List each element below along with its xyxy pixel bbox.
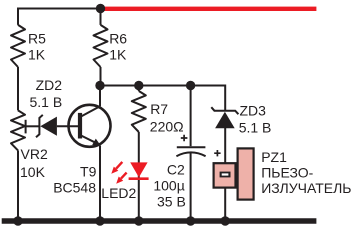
svg-text:PZ1: PZ1 xyxy=(261,149,287,165)
svg-text:VR2: VR2 xyxy=(21,146,48,162)
svg-text:ПЬЕЗО-: ПЬЕЗО- xyxy=(261,164,313,180)
svg-text:ZD3: ZD3 xyxy=(240,102,267,118)
svg-text:C2: C2 xyxy=(167,161,185,177)
svg-text:220Ω: 220Ω xyxy=(150,118,184,134)
svg-text:100µ: 100µ xyxy=(153,177,184,193)
svg-text:5.1 В: 5.1 В xyxy=(239,119,272,135)
svg-text:ZD2: ZD2 xyxy=(36,77,63,93)
svg-text:R5: R5 xyxy=(28,30,46,46)
svg-text:1K: 1K xyxy=(109,47,127,63)
svg-text:ИЗЛУЧАТЕЛЬ: ИЗЛУЧАТЕЛЬ xyxy=(261,180,351,196)
svg-text:35 В: 35 В xyxy=(157,193,186,209)
svg-text:1K: 1K xyxy=(28,46,46,62)
svg-text:5.1 В: 5.1 В xyxy=(30,94,63,110)
svg-text:R6: R6 xyxy=(109,31,127,47)
svg-text:BC548: BC548 xyxy=(53,180,96,196)
svg-text:LED2: LED2 xyxy=(101,185,136,201)
svg-text:R7: R7 xyxy=(150,101,168,117)
svg-text:T9: T9 xyxy=(80,164,97,180)
svg-text:10K: 10K xyxy=(20,164,46,180)
